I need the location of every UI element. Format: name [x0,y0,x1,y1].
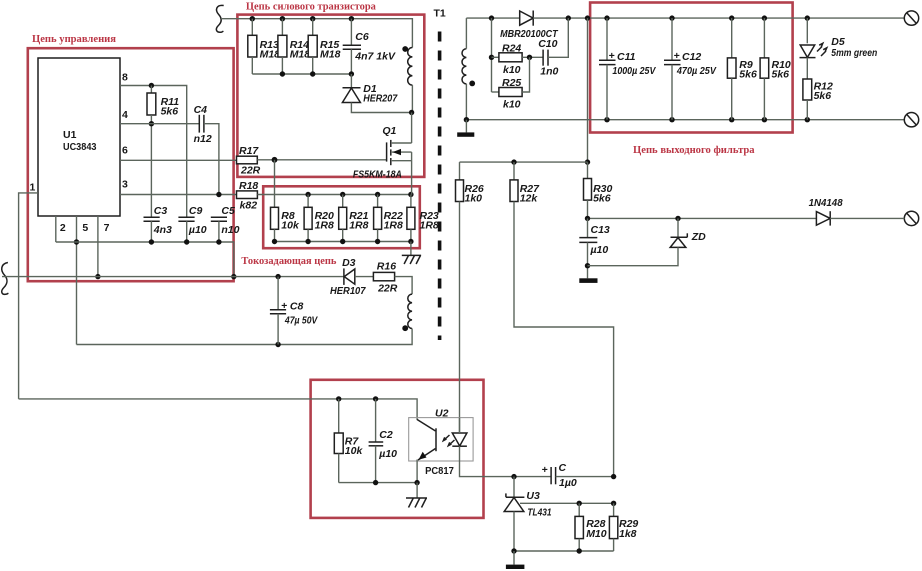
label: Цепь силового транзистора [246,2,377,13]
capacitor C electrolytic [542,462,617,489]
earth ground below opto emitter [406,483,427,508]
IC U1 UC3843 body [38,58,120,216]
svg-text:5k6: 5k6 [593,193,611,205]
resistor R29 [609,503,638,551]
bar ground below C13 [579,278,597,283]
svg-text:T1: T1 [434,8,446,20]
svg-text:1k8: 1k8 [619,528,637,540]
resistor R22 [374,195,403,242]
svg-text:R17: R17 [239,145,259,157]
wire: bank bottom rail [272,239,414,244]
capacitor C10 [538,18,568,77]
capacitor C2 [369,399,398,483]
label: Токозадающая цепь [241,256,336,267]
wire: R30 column from +V rail down to divider [585,18,590,165]
wire: feedback winding bottom return to C8/pin5 [77,329,413,348]
wire: pin 8 to corner and C9 column [120,83,187,217]
resistor R14 [278,19,310,74]
opto internal LED [452,418,467,447]
svg-text:C2: C2 [379,429,393,441]
svg-text:4n3: 4n3 [153,224,172,236]
wire: snubber tap down to R24/R25 [489,18,494,92]
wire: pin 7 stub to common rail [95,216,100,279]
resistor R17 [237,145,261,177]
svg-text:R18: R18 [239,180,258,192]
svg-text:M18: M18 [290,49,311,61]
svg-text:C3: C3 [154,205,168,217]
svg-text:C4: C4 [194,104,208,116]
wire: gate node down to sense bank [274,160,276,208]
svg-text:C5: C5 [221,205,235,217]
capacitor C5 [211,205,240,242]
label: D3 designator [342,257,356,269]
svg-text:U3: U3 [526,490,540,502]
svg-text:+: + [674,50,680,62]
label: Цепь выходного фильтра [633,145,755,156]
svg-text:FS5KM-18A: FS5KM-18A [353,169,402,181]
resistor R10 [760,18,791,120]
label: Цепь управления [32,34,116,45]
svg-text:+: + [281,300,287,312]
transformer core (dashed) [438,32,442,341]
red frame: power transistor circuit box [237,15,424,177]
diode D1 HER207 [342,74,411,113]
svg-text:R24: R24 [502,43,521,55]
capacitor C8 electrolytic [270,277,318,345]
red frame: output filter box [590,3,793,133]
capacitor C4 [194,104,212,145]
resistor R21 [339,195,369,242]
svg-text:n12: n12 [194,133,212,145]
svg-text:C6: C6 [355,31,369,43]
capacitor C9 [178,205,206,242]
pin 6 label [122,145,128,157]
svg-text:PC817: PC817 [425,465,454,477]
svg-text:µ10: µ10 [590,244,609,256]
svg-text:C13: C13 [591,224,610,236]
resistor R15 [308,19,340,74]
resistor R9 [727,18,757,120]
svg-text:C: C [559,462,567,474]
wire: R26 down to opto LED anode [459,202,461,434]
resistor R20 [304,195,334,242]
LED D5 [800,18,878,79]
red frame: control circuit box [28,48,234,281]
pin 5 label [82,222,88,234]
transistor Q1 FS5KM-18A [353,125,412,195]
wire: TL431 ref rail [520,501,616,506]
earth ground below R23 [402,242,421,265]
resistor R11 [147,86,179,118]
diode 1N4148 [809,197,905,226]
svg-text:C12: C12 [682,51,701,63]
transformer T1 feedback winding [402,294,412,331]
svg-text:5mm green: 5mm green [831,47,877,59]
svg-text:2: 2 [60,222,66,234]
wire: opto top feed [19,396,418,420]
wire: secondary bottom / 0V rail to terminal [464,117,905,122]
svg-text:k82: k82 [240,200,258,212]
svg-text:12k: 12k [520,193,539,205]
resistor R16 [373,261,397,295]
svg-text:R25: R25 [502,77,521,89]
svg-text:U2: U2 [435,408,449,420]
resistor R25 [492,57,530,110]
svg-text:UC3843: UC3843 [63,141,97,153]
zener diode ZD [588,218,707,265]
svg-text:1000µ 25V: 1000µ 25V [612,65,656,77]
resistor R27 [510,162,540,204]
svg-text:1n0: 1n0 [540,66,558,78]
wire: R8 tails [274,229,276,241]
svg-text:5k6: 5k6 [772,69,790,81]
svg-text:+: + [609,50,615,62]
wire: R17 to Q1 gate [257,157,386,163]
svg-text:5: 5 [82,222,88,234]
red frame: optocoupler feedback box [311,380,484,518]
resistor R24 [492,43,544,77]
resistor R23 [407,195,439,242]
svg-text:1k0: 1k0 [465,193,483,205]
svg-text:D3: D3 [342,257,356,269]
resistor R12 [803,79,833,120]
svg-text:C9: C9 [189,205,203,217]
wire: R16 to feedback winding [395,277,413,295]
diode MBR20100CT [500,11,559,41]
output terminal 0V [904,113,918,127]
transformer T1 primary winding [402,46,414,115]
optocoupler U2 PC817 [409,408,473,483]
wire: pin 3 to R18 [120,192,237,197]
svg-text:1µ0: 1µ0 [559,477,577,489]
pin 8 label [122,72,128,84]
break squiggle top (mains feed) [216,5,223,32]
svg-text:Цепь управления: Цепь управления [32,34,116,45]
wire: R18 to bank top rail [257,192,413,197]
capacitor C6 [343,19,396,74]
svg-text:C8: C8 [290,301,304,313]
svg-text:+: + [542,464,548,476]
capacitor C13 [579,218,610,278]
svg-text:5k6: 5k6 [814,90,832,102]
wire: R30 bottom sense rail to 1N4148 [585,216,817,221]
svg-text:M10: M10 [586,528,607,540]
wire: primary bottom to Q1 drain [411,113,413,144]
svg-text:k10: k10 [503,99,521,111]
wire: pin 2 stub [55,216,57,242]
capacitor C12 electrolytic [664,18,717,120]
resistor R26 [456,162,484,204]
svg-text:U1: U1 [63,129,77,141]
svg-text:1R8: 1R8 [384,220,403,232]
svg-text:3: 3 [122,179,128,191]
bar ground below secondary [457,120,474,137]
wire: R27 divider tap down to TL431 ref column [514,202,614,477]
wire: TL431 anode ground rail [511,548,613,553]
svg-text:C10: C10 [538,38,557,50]
wire: HV rail across snubber top [221,16,412,48]
svg-text:M18: M18 [320,49,341,61]
wire: C4 to C5 column, down to pin3 wire [204,124,219,195]
svg-text:1R8: 1R8 [349,220,368,232]
wire: pin 4 to C4 [120,123,199,125]
svg-text:TL431: TL431 [527,507,551,519]
pin 4 label [122,109,128,121]
svg-text:Цепь выходного фильтра: Цепь выходного фильтра [633,145,755,156]
svg-text:n10: n10 [221,224,239,236]
svg-text:10k: 10k [281,220,300,232]
red frame: current sense resistor bank box [263,186,420,248]
svg-text:5k6: 5k6 [161,106,179,118]
wire: common supply rail (squiggle to D3) [2,274,344,279]
transformer T1 label [434,8,446,20]
svg-text:22R: 22R [240,165,261,177]
capacitor C3 [144,205,173,242]
svg-text:1R8: 1R8 [315,220,334,232]
svg-text:µ10: µ10 [378,448,397,460]
svg-text:4: 4 [122,109,128,121]
wire: pin 6 to R17 [120,159,237,161]
svg-text:10k: 10k [345,445,364,457]
wire: R11 bottom to pin 4 wire, down to C3 [149,115,154,217]
svg-text:HER107: HER107 [330,285,367,297]
svg-text:7: 7 [104,222,110,234]
svg-text:6: 6 [122,145,128,157]
output terminal +V [904,11,918,25]
svg-text:1N4148: 1N4148 [809,197,843,209]
svg-text:Токозадающая цепь: Токозадающая цепь [241,256,336,267]
svg-text:C11: C11 [617,51,636,63]
wire: rectifier output rail to +V terminal [533,15,904,20]
pin 1 label [30,182,36,194]
resistor R28 [575,503,607,551]
svg-text:Цепь силового транзистора: Цепь силового транзистора [246,2,377,13]
pin 3 label [122,179,128,191]
wire: snubber bottom rail [252,71,354,76]
bar ground below TL431 [506,551,525,569]
wire: secondary top to rectifier [466,15,519,20]
wire: opto emitter rail [339,480,420,485]
pin 2 label [60,222,66,234]
shunt regulator U3 TL431 [504,477,552,551]
output terminal sense [904,211,918,225]
diode D3 HER107 [330,268,367,297]
svg-text:4n7 1kV: 4n7 1kV [354,51,396,63]
svg-text:1: 1 [30,182,36,194]
svg-text:47µ 50V: 47µ 50V [284,315,318,327]
transformer T1 secondary winding [462,18,475,120]
resistor R8 [271,207,300,231]
svg-text:k10: k10 [503,64,521,76]
svg-text:R16: R16 [377,261,396,273]
svg-text:HER207: HER207 [363,93,398,105]
svg-text:5k6: 5k6 [739,69,757,81]
svg-text:M18: M18 [260,49,281,61]
svg-text:1R8: 1R8 [420,220,439,232]
wire: decoupling rail y=242 with corner down to common rail [56,239,237,279]
capacitor C11 electrolytic [599,18,656,120]
wire: pin 5 stub down to lower return [74,216,79,345]
wire: opto LED cathode to TL431 node [460,446,552,479]
svg-text:Q1: Q1 [382,125,396,137]
break squiggle left edge [2,263,9,295]
svg-text:470µ 25V: 470µ 25V [676,65,717,77]
resistor R13 [248,19,280,74]
svg-text:8: 8 [122,72,128,84]
resistor R30 [584,162,613,218]
wire: pin 1 to left edge and down to opto feed [19,193,38,399]
resistor R18 [237,180,259,212]
wire: divider top rail [460,159,588,164]
svg-text:22R: 22R [377,283,398,295]
svg-text:µ10: µ10 [188,224,207,236]
resistor R7 [334,399,363,483]
wire: D3 to R16 [355,276,374,278]
svg-text:ZD: ZD [691,231,706,243]
pin 7 label [104,222,110,234]
